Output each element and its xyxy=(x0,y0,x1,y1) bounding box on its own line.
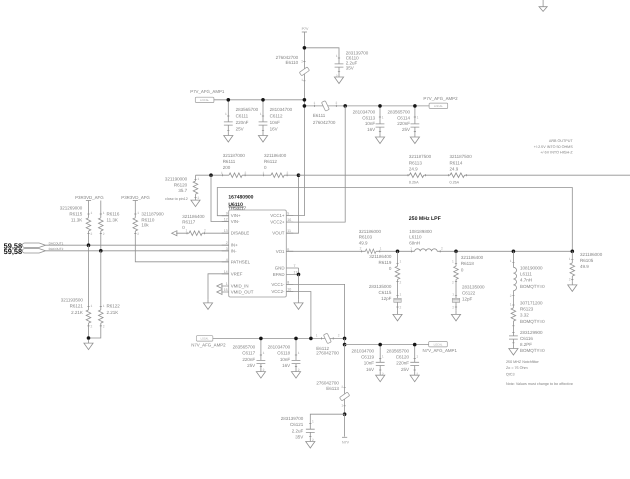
wire VCC2- to negative rail xyxy=(286,292,311,339)
svg-text:35V: 35V xyxy=(346,65,354,70)
svg-text:321186400: 321186400 xyxy=(182,214,205,219)
ground for C6118 xyxy=(291,368,300,378)
ground stub at top page edge xyxy=(539,0,547,11)
ferrite bead E6112 xyxy=(316,333,340,355)
svg-text:1: 1 xyxy=(400,292,402,296)
svg-text:P7V: P7V xyxy=(302,27,309,31)
svg-text:2: 2 xyxy=(338,334,340,338)
portal arrow VMID_OUT xyxy=(217,290,222,295)
ground for C6122 xyxy=(451,311,460,321)
ground for VREF xyxy=(203,299,212,309)
svg-text:25V: 25V xyxy=(247,363,255,368)
svg-text:R6123: R6123 xyxy=(520,307,534,312)
svg-text:E6111: E6111 xyxy=(313,113,326,118)
svg-text:1: 1 xyxy=(417,115,419,119)
power net P3R3VD_AFG (right) xyxy=(121,195,150,201)
inductor L6110 68nH xyxy=(409,229,443,252)
wire feedback from VIN+ to LPF output xyxy=(217,188,572,252)
svg-text:N7V_AFG_AMP1: N7V_AFG_AMP1 xyxy=(423,348,458,353)
svg-text:1: 1 xyxy=(569,257,571,261)
node E6112 output junction xyxy=(343,337,347,341)
svg-text:49.9: 49.9 xyxy=(580,264,589,269)
svg-text:276042700: 276042700 xyxy=(313,120,336,125)
svg-text:24.9: 24.9 xyxy=(450,166,459,171)
resistor R6121 2.21K pulldown xyxy=(61,245,93,338)
inductor L6111 4.7nH notch xyxy=(510,251,545,290)
power net N7V xyxy=(342,414,350,444)
power net P3R3VD_AFG (left) xyxy=(75,195,104,201)
svg-text:1: 1 xyxy=(380,246,382,250)
svg-text:EPAD: EPAD xyxy=(273,272,285,277)
svg-text:VO1: VO1 xyxy=(276,249,285,254)
svg-text:R6119: R6119 xyxy=(378,260,391,265)
svg-text:1: 1 xyxy=(103,211,105,215)
node LPF A junction xyxy=(396,250,400,254)
svg-text:1: 1 xyxy=(382,115,384,119)
net label N7V_AFG_AMP1 xyxy=(423,342,458,354)
capacitor C6120 220nF xyxy=(386,345,419,376)
svg-text:1: 1 xyxy=(260,112,262,116)
svg-text:C6118: C6118 xyxy=(277,351,290,356)
wire VCC1- to negative rail xyxy=(286,284,344,338)
svg-text:THS3217: THS3217 xyxy=(228,206,246,211)
svg-text:R6113: R6113 xyxy=(409,160,422,165)
svg-text:281034700: 281034700 xyxy=(270,107,293,112)
svg-text:68nH: 68nH xyxy=(409,241,420,246)
ferrite bead E6110 xyxy=(276,55,310,82)
svg-text:0.25A: 0.25A xyxy=(450,180,460,184)
svg-text:8.2PF: 8.2PF xyxy=(520,342,532,347)
svg-text:321187500: 321187500 xyxy=(409,154,432,159)
resistor R6116 11.3K pullup xyxy=(99,201,120,251)
ground for C6116 xyxy=(509,345,518,355)
svg-text:R6112: R6112 xyxy=(264,159,277,164)
svg-text:1: 1 xyxy=(400,259,402,263)
svg-text:12: 12 xyxy=(224,218,228,222)
svg-text:321269000: 321269000 xyxy=(60,206,83,211)
svg-text:P3R3VD_AFG: P3R3VD_AFG xyxy=(75,195,104,200)
svg-text:283565700: 283565700 xyxy=(233,345,256,350)
svg-text:276042700: 276042700 xyxy=(316,380,339,385)
svg-text:C6112: C6112 xyxy=(270,113,283,118)
svg-text:16: 16 xyxy=(287,218,291,222)
wire DISABLE to pin 13 xyxy=(176,232,229,234)
svg-text:1: 1 xyxy=(103,304,105,308)
svg-text:10nF: 10nF xyxy=(270,120,281,125)
resistor R6117 0 on DISABLE xyxy=(182,214,206,236)
svg-text:1: 1 xyxy=(316,334,318,338)
net label P7V_AFG_AMP1 xyxy=(190,89,225,102)
svg-text:VIN+: VIN+ xyxy=(231,213,241,218)
svg-text:2: 2 xyxy=(137,232,139,236)
svg-text:13: 13 xyxy=(224,229,228,233)
node E6111 output junction xyxy=(343,104,347,108)
svg-text:C6116: C6116 xyxy=(520,336,533,341)
svg-text:DACOUT1: DACOUT1 xyxy=(49,241,64,245)
svg-text:1: 1 xyxy=(91,211,93,215)
svg-text:N7V_AFG_AMP2: N7V_AFG_AMP2 xyxy=(191,342,226,347)
svg-text:12pF: 12pF xyxy=(462,297,473,302)
svg-text:2: 2 xyxy=(452,305,454,309)
svg-text:12pF: 12pF xyxy=(381,296,392,301)
svg-text:321186400: 321186400 xyxy=(369,254,392,259)
wire DACOUT1 to IN+ pin 2 xyxy=(46,244,229,246)
wire bottom-left negative rail xyxy=(213,337,345,339)
svg-text:1: 1 xyxy=(137,211,139,215)
svg-text:220nF: 220nF xyxy=(397,121,410,126)
svg-text:35V: 35V xyxy=(295,435,303,440)
resistor R6118 0 shunt xyxy=(452,251,484,298)
node rail junction at riser bottom xyxy=(303,104,307,108)
svg-text:R6114: R6114 xyxy=(450,160,463,165)
wire VO1 to LPF xyxy=(286,250,572,252)
svg-text:N7V: N7V xyxy=(342,441,350,445)
ground for C6110 xyxy=(334,73,343,83)
svg-text:4.7nH: 4.7nH xyxy=(520,278,532,283)
svg-text:E6110: E6110 xyxy=(286,60,299,65)
svg-text:R6105: R6105 xyxy=(580,258,594,263)
svg-text:2: 2 xyxy=(91,232,93,236)
node rail junction C6113 xyxy=(378,104,382,108)
node R6111 input junction xyxy=(209,173,213,177)
node LPF B junction xyxy=(454,250,458,254)
svg-text:VCC2+: VCC2+ xyxy=(270,220,285,225)
svg-text:VCC2-: VCC2- xyxy=(271,289,285,294)
capacitor C6113 10nF xyxy=(353,106,385,133)
capacitor C6118 10nF xyxy=(268,338,301,372)
resistor R6110 10k pullup to PATHSEL xyxy=(133,201,229,262)
svg-text:321187500: 321187500 xyxy=(450,154,473,159)
svg-text:P7V_AFG_AMP1: P7V_AFG_AMP1 xyxy=(190,89,225,94)
svg-text:250 MHz LPF: 250 MHz LPF xyxy=(409,216,441,222)
svg-text:VMID_OUT: VMID_OUT xyxy=(231,290,254,295)
svg-text:11: 11 xyxy=(287,229,291,233)
svg-text:14: 14 xyxy=(224,270,228,274)
capacitor C6122 12pF xyxy=(452,285,485,311)
node DACOUT1/R6115 junction xyxy=(87,243,91,247)
wire bottom-right negative rail xyxy=(345,344,429,346)
node rail junction C6120 xyxy=(413,343,417,347)
ground for R6105 xyxy=(568,281,577,291)
svg-text:1: 1 xyxy=(198,177,200,181)
wire output row to page edge xyxy=(299,174,630,176)
ground for C6119 xyxy=(376,372,385,382)
svg-text:2: 2 xyxy=(204,229,206,233)
ground for C6121 xyxy=(306,438,315,448)
svg-text:10k: 10k xyxy=(141,222,149,227)
svg-text:1: 1 xyxy=(341,404,343,408)
pin tick marks on horizontal wires xyxy=(187,105,466,340)
svg-text:2: 2 xyxy=(198,196,200,200)
node LPF output junction xyxy=(571,250,575,254)
svg-text:BOMQTY=0: BOMQTY=0 xyxy=(520,319,545,324)
svg-text:2: 2 xyxy=(91,325,93,329)
svg-text:16V: 16V xyxy=(270,126,278,131)
svg-text:BOMQTY=0: BOMQTY=0 xyxy=(520,284,545,289)
svg-text:VOUT: VOUT xyxy=(272,231,285,236)
svg-text:VREF: VREF xyxy=(231,271,243,276)
svg-text:1: 1 xyxy=(225,112,227,116)
svg-text:2: 2 xyxy=(301,59,303,63)
svg-text:16V: 16V xyxy=(366,367,374,372)
off-page flag DACOUT2 xyxy=(22,247,63,253)
svg-text:200: 200 xyxy=(223,165,231,170)
svg-text:2.2uF: 2.2uF xyxy=(292,428,304,433)
wire VREF to ground xyxy=(208,274,229,300)
svg-text:281034700: 281034700 xyxy=(353,110,376,115)
svg-text:QIC3: QIC3 xyxy=(506,372,515,376)
node rail junction C6119 xyxy=(378,343,382,347)
resistor R6111 200 xyxy=(221,153,247,178)
svg-text:1: 1 xyxy=(452,292,454,296)
svg-text:10nF: 10nF xyxy=(364,361,375,366)
svg-text:220nF: 220nF xyxy=(236,120,249,125)
off-page arrow DISABLE xyxy=(172,231,177,236)
wire negative rail down through E6113 xyxy=(344,345,346,415)
U6110 pin numbers xyxy=(224,212,298,292)
ground for R6120 xyxy=(191,197,200,207)
svg-text:283565700: 283565700 xyxy=(387,110,410,115)
node rail junction C6118 xyxy=(294,337,298,341)
svg-text:35.7: 35.7 xyxy=(178,188,187,193)
resistor R6123 3.32 notch xyxy=(510,291,545,336)
node rail junction C6117 xyxy=(259,337,263,341)
resistor R6122 2.21K pulldown xyxy=(89,251,121,338)
power net P7V xyxy=(302,27,309,32)
svg-text:108190000: 108190000 xyxy=(520,266,543,271)
wire GND pin to EPAD node xyxy=(298,268,300,274)
svg-text:7: 7 xyxy=(294,264,296,268)
svg-text:Note: Values must change to be: Note: Values must change to be effective xyxy=(506,382,573,386)
capacitor C6111 220nF xyxy=(224,100,259,132)
capacitor C6112 10nF xyxy=(259,100,293,132)
svg-text:4: 4 xyxy=(226,258,228,262)
wire top-right rail P7V_AFG_AMP2 xyxy=(304,105,429,107)
svg-text:321187000: 321187000 xyxy=(223,153,246,158)
svg-text:321186400: 321186400 xyxy=(461,255,484,260)
svg-text:BOMQTY=0: BOMQTY=0 xyxy=(520,348,545,353)
svg-text:1: 1 xyxy=(336,54,338,58)
svg-text:R6116: R6116 xyxy=(107,212,120,217)
svg-text:283139700: 283139700 xyxy=(281,416,304,421)
wire DACOUT2 to IN- pin 3 xyxy=(46,250,229,252)
node rail junction C6112 xyxy=(261,98,265,102)
note ARB OUTPUT xyxy=(534,139,574,155)
capacitor C6115 12pF xyxy=(369,284,402,311)
svg-text:1: 1 xyxy=(510,302,512,306)
svg-text:10nF: 10nF xyxy=(365,121,376,126)
resistor R6112 0 xyxy=(263,153,289,178)
ground for C6112 xyxy=(258,132,267,142)
svg-text:IN-: IN- xyxy=(231,248,237,253)
svg-text:2: 2 xyxy=(360,246,362,250)
svg-text:281034700: 281034700 xyxy=(351,349,374,354)
node rail junction C6114 xyxy=(413,104,417,108)
capacitor C6117 220nF xyxy=(233,338,266,372)
node LPF C junction xyxy=(512,250,516,254)
svg-text:R6117: R6117 xyxy=(182,220,195,225)
svg-text:321186400: 321186400 xyxy=(264,153,287,158)
wire to C6121 xyxy=(310,414,344,438)
svg-text:C6115: C6115 xyxy=(378,290,391,295)
svg-text:2.21K: 2.21K xyxy=(71,310,83,315)
svg-text:5: 5 xyxy=(287,212,289,216)
svg-text:10: 10 xyxy=(287,288,291,292)
svg-text:283135000: 283135000 xyxy=(462,285,485,290)
svg-text:10nF: 10nF xyxy=(280,357,291,362)
svg-text:R6122: R6122 xyxy=(107,304,121,309)
U6110 left pin stubs xyxy=(221,216,229,292)
ground for EPAD xyxy=(294,299,303,309)
portal arrow VMID_IN xyxy=(217,284,222,289)
svg-text:321186000: 321186000 xyxy=(359,229,382,234)
note notch filter xyxy=(506,360,573,386)
svg-text:C6121: C6121 xyxy=(290,422,304,427)
svg-text:3: 3 xyxy=(226,247,228,251)
svg-text:1: 1 xyxy=(301,78,303,82)
svg-text:307171200: 307171200 xyxy=(520,301,543,306)
svg-text:1: 1 xyxy=(410,246,412,250)
U6110 right pin stubs xyxy=(286,216,298,292)
svg-text:R6120: R6120 xyxy=(174,182,188,187)
resistor R6115 11.3K pullup xyxy=(60,201,93,246)
U6110 pin names xyxy=(231,213,285,294)
svg-text:321193500: 321193500 xyxy=(61,298,84,303)
svg-text:C6120: C6120 xyxy=(396,355,410,360)
pin tick marks on vertical stems xyxy=(87,58,573,436)
svg-text:283135000: 283135000 xyxy=(369,284,392,289)
svg-text:15: 15 xyxy=(224,288,228,292)
svg-text:C6111: C6111 xyxy=(236,113,249,118)
svg-text:9: 9 xyxy=(226,212,228,216)
svg-text:P3R3VD_AFG: P3R3VD_AFG xyxy=(121,195,150,200)
svg-text:283129900: 283129900 xyxy=(520,330,543,335)
svg-text:0.25A: 0.25A xyxy=(409,180,419,184)
resistor R6119 0 shunt xyxy=(369,251,401,298)
node rail junction at riser top xyxy=(303,98,307,102)
svg-text:1: 1 xyxy=(510,259,512,263)
svg-text:2: 2 xyxy=(400,305,402,309)
svg-text:1: 1 xyxy=(226,282,228,286)
svg-text:2: 2 xyxy=(103,325,105,329)
off-page flag DACOUT1 xyxy=(22,241,63,247)
svg-text:276042700: 276042700 xyxy=(316,351,339,356)
capacitor C6119 10nF xyxy=(351,345,384,376)
net label N7V_AFG_AMP2 xyxy=(191,336,226,348)
svg-text:P7V_AFG_AMP2: P7V_AFG_AMP2 xyxy=(423,96,458,101)
node C6121 junction xyxy=(343,412,347,416)
ground for C6117 xyxy=(256,368,265,378)
svg-text:C6117: C6117 xyxy=(242,351,255,356)
svg-text:8: 8 xyxy=(287,280,289,284)
svg-text:1: 1 xyxy=(416,355,418,359)
svg-text:VCC1+: VCC1+ xyxy=(270,213,285,218)
wire P7V to C6110 xyxy=(304,48,339,74)
svg-text:2: 2 xyxy=(341,385,343,389)
svg-text:2: 2 xyxy=(226,241,228,245)
svg-text:DISABLE: DISABLE xyxy=(231,231,250,236)
svg-text:2: 2 xyxy=(336,101,338,105)
svg-text:+/-5V INTO HIGH-Z: +/-5V INTO HIGH-Z xyxy=(540,151,573,155)
node P7V junction xyxy=(303,46,307,50)
svg-text:11.3K: 11.3K xyxy=(107,218,118,223)
capacitor C6114 220nF xyxy=(387,106,419,133)
svg-text:25V: 25V xyxy=(236,126,244,131)
wire EPAD to ground xyxy=(298,274,300,299)
svg-text:1: 1 xyxy=(263,351,265,355)
resistor R6103 49.9 xyxy=(359,229,382,254)
capacitor C6110 2.2uF xyxy=(335,50,369,78)
wire rail drop to bottom-right rail xyxy=(344,338,346,344)
svg-text:PATHSEL: PATHSEL xyxy=(231,259,251,264)
node rail junction VCC2- drop xyxy=(309,337,313,341)
svg-text:2: 2 xyxy=(452,280,454,284)
svg-text:VMID_IN: VMID_IN xyxy=(231,284,249,289)
svg-text:2: 2 xyxy=(400,280,402,284)
ferrite bead E6111 xyxy=(313,101,338,125)
svg-text:25V: 25V xyxy=(402,127,410,132)
svg-text:R6121: R6121 xyxy=(70,304,84,309)
page reference 59,58 xyxy=(4,241,23,256)
svg-text:R6118: R6118 xyxy=(461,261,474,266)
svg-text:2: 2 xyxy=(441,246,443,250)
svg-text:220nF: 220nF xyxy=(396,361,409,366)
svg-text:C6113: C6113 xyxy=(362,115,375,120)
svg-text:24.9: 24.9 xyxy=(409,166,418,171)
svg-text:16V: 16V xyxy=(282,363,290,368)
wire R6111/R6112 row from R6120 corner to VOUT riser xyxy=(196,174,299,176)
svg-text:L6111: L6111 xyxy=(520,272,532,277)
svg-text:1: 1 xyxy=(314,101,316,105)
ground for C6120 xyxy=(410,372,419,382)
svg-text:2.21K: 2.21K xyxy=(107,310,119,315)
node pulldown common junction xyxy=(87,336,91,340)
svg-text:281034700: 281034700 xyxy=(268,345,291,350)
svg-text:R6115: R6115 xyxy=(69,212,82,217)
resistor R6114 24.9 xyxy=(450,154,473,184)
svg-text:1: 1 xyxy=(186,229,188,233)
svg-text:2: 2 xyxy=(103,232,105,236)
svg-text:1: 1 xyxy=(382,355,384,359)
resistor R6105 49.9 termination xyxy=(569,251,603,281)
resistor R6120 35.7 shunt xyxy=(165,175,200,201)
svg-text:2: 2 xyxy=(510,294,512,298)
ground for C6111 xyxy=(224,132,233,142)
node bottom-right rail junction xyxy=(343,343,347,347)
svg-text:283565700: 283565700 xyxy=(386,349,409,354)
capacitor C6116 8.2PF notch xyxy=(509,330,545,353)
wire from node down to VIN- pin 12 xyxy=(211,175,229,221)
svg-text:VIN-: VIN- xyxy=(231,219,240,224)
node rail junction C6111 xyxy=(227,98,231,102)
svg-text:321190000: 321190000 xyxy=(165,177,188,182)
svg-text:321187900: 321187900 xyxy=(141,212,164,217)
wire top-left rail P7V_AFG_AMP1 xyxy=(214,99,305,101)
svg-text:250 MHZ Notchfilter: 250 MHZ Notchfilter xyxy=(506,360,540,364)
svg-text:1: 1 xyxy=(312,420,314,424)
svg-text:C6119: C6119 xyxy=(361,355,374,360)
svg-text:L6110: L6110 xyxy=(409,235,422,240)
svg-text:IN+: IN+ xyxy=(231,243,238,248)
svg-text:R6111: R6111 xyxy=(223,159,236,164)
svg-text:R6103: R6103 xyxy=(359,235,373,240)
svg-text:6: 6 xyxy=(287,247,289,251)
node DACOUT2/R6116 junction xyxy=(99,249,103,253)
svg-text:108189800: 108189800 xyxy=(409,229,432,234)
svg-text:1: 1 xyxy=(298,351,300,355)
svg-text:1: 1 xyxy=(91,304,93,308)
node EPAD junction xyxy=(297,273,301,277)
